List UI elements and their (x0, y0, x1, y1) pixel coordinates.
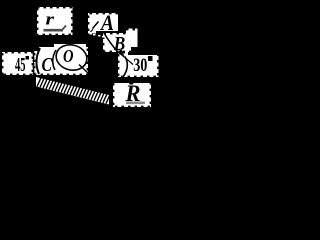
svg-text:O: O (63, 46, 74, 66)
svg-text:30: 30 (133, 55, 147, 76)
svg-text:r: r (46, 10, 55, 29)
svg-text:A: A (99, 10, 114, 35)
svg-text:C: C (42, 55, 53, 76)
svg-text:45: 45 (15, 55, 26, 76)
